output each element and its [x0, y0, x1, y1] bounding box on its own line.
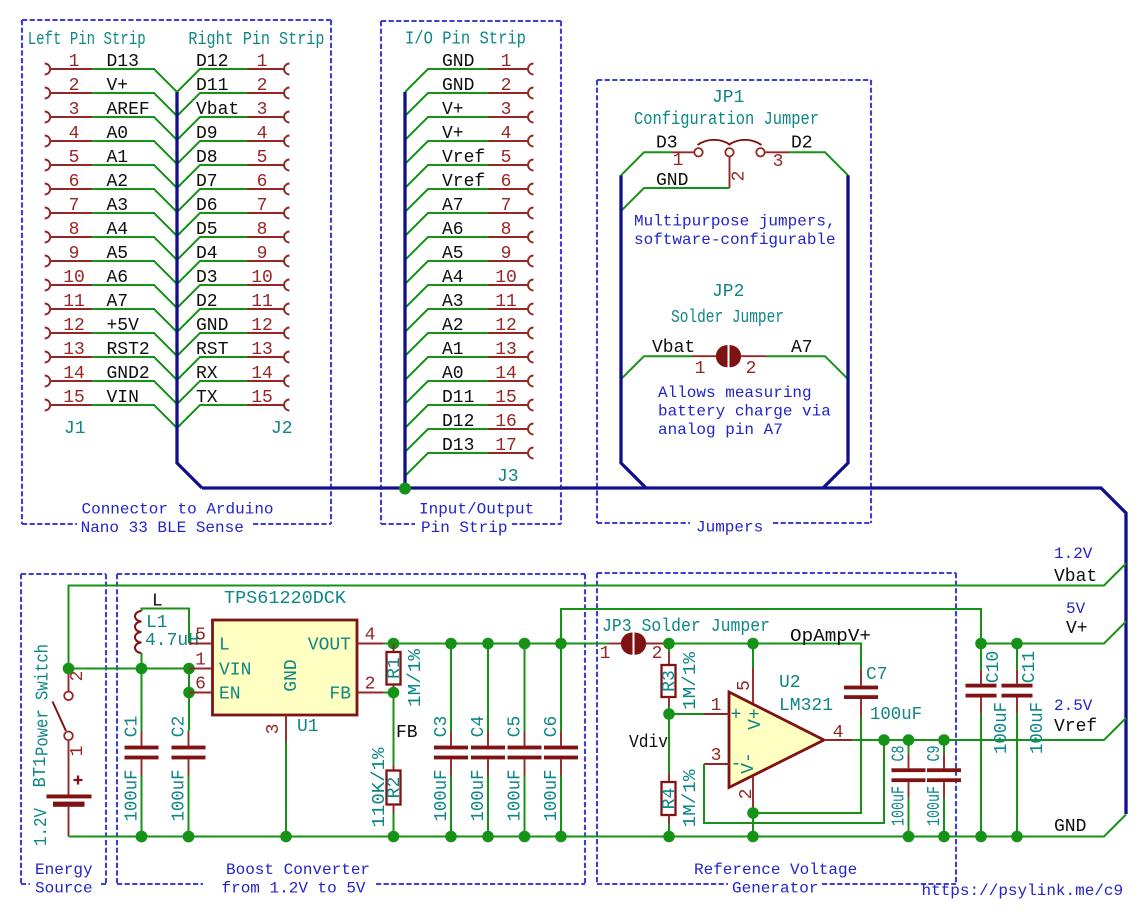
bus of J3 strip	[403, 92, 406, 488]
svg-text:15: 15	[251, 388, 273, 408]
J1 pin 10 (A6) socket hook	[45, 280, 51, 291]
svg-text:battery charge via: battery charge via	[658, 403, 831, 421]
wire L1 bottom to VIN row	[141, 653, 143, 669]
svg-text:1M/1%: 1M/1%	[406, 649, 426, 707]
J2 pin 13 line	[247, 356, 284, 358]
wire A4 to bus (J1 pin 8)	[92, 237, 177, 260]
svg-text:12: 12	[495, 316, 517, 336]
J2 pin 15 line	[247, 404, 284, 406]
J2 pin 9 line	[247, 260, 284, 262]
svg-text:1: 1	[673, 151, 684, 171]
svg-text:4: 4	[257, 124, 268, 144]
capacitor C1 top lead	[141, 730, 143, 732]
JP1 pin 2 line	[729, 157, 731, 188]
junction C6 top	[555, 638, 567, 650]
svg-text:Vbat: Vbat	[652, 338, 695, 358]
J3 pin 2 line	[488, 92, 528, 94]
wire Vbat rail (battery/switch top to right bus)	[69, 564, 1127, 669]
main horizontal bus	[202, 488, 1126, 814]
junction JP3/R3	[663, 638, 675, 650]
svg-text:V+: V+	[442, 124, 464, 144]
J2 pin 2 line	[247, 92, 284, 94]
svg-text:D13: D13	[442, 436, 474, 456]
resistor R1 pin bottom	[393, 685, 395, 693]
junction C11 top	[1011, 638, 1023, 650]
J3 pin 10 (A4) socket hook	[528, 280, 534, 291]
svg-text:FB: FB	[396, 723, 418, 743]
wire Vdiv to op-amp + input	[669, 713, 704, 715]
svg-text:10: 10	[251, 268, 273, 288]
J3 pin 11 (A3) socket hook	[528, 304, 534, 315]
junction C1 at GND rail	[136, 831, 148, 843]
svg-text:3: 3	[264, 724, 284, 735]
J2 pin 1 (D12) socket hook	[284, 64, 290, 75]
J3 pin 2 (GND) socket hook	[528, 88, 534, 99]
op-amp U2 triangle body	[729, 692, 824, 788]
wire U2 pin2/C7 bottom to GND rail	[752, 807, 754, 837]
svg-text:GND: GND	[442, 52, 474, 72]
svg-text:EN: EN	[219, 685, 241, 705]
svg-text:12: 12	[63, 316, 85, 336]
resistor R2 pin bottom	[393, 805, 395, 814]
J2 pin 1 line	[247, 68, 284, 70]
svg-text:C7: C7	[866, 665, 888, 685]
capacitor C1 plates	[125, 746, 159, 750]
J1 pin 10 line	[50, 284, 92, 286]
junction output/feedback	[878, 734, 890, 746]
svg-text:R1: R1	[385, 657, 405, 679]
U2 pin 2 line (V-)	[752, 777, 754, 807]
junction Vdiv node	[663, 708, 675, 720]
svg-text:8: 8	[501, 220, 512, 240]
svg-text:D6: D6	[196, 196, 218, 216]
svg-text:+: +	[731, 706, 742, 726]
JP1 pin 1 line	[672, 151, 694, 153]
wire C7 bottom to pin2 node	[753, 717, 861, 813]
svg-text:JP1: JP1	[712, 88, 744, 108]
J1 pin 8 line	[50, 236, 92, 238]
capacitor C9 top lead	[943, 740, 945, 754]
svg-text:JP2: JP2	[712, 282, 744, 302]
dashed box: Reference Voltage Generator	[597, 573, 956, 884]
svg-text:4.7uH: 4.7uH	[145, 631, 199, 651]
svg-text:C4: C4	[469, 716, 489, 738]
wire GND to left jumper bus	[621, 188, 730, 211]
J3 pin 6 line	[488, 188, 528, 190]
J2 pin 4 (D9) socket hook	[284, 136, 290, 147]
svg-text:A2: A2	[442, 316, 464, 336]
J1 pin 4 line	[50, 140, 92, 142]
svg-text:100uF: 100uF	[506, 770, 526, 822]
svg-text:GND: GND	[1054, 817, 1086, 837]
svg-text:5: 5	[69, 148, 80, 168]
svg-text:7: 7	[501, 196, 512, 216]
wire D7 to bus (J2 pin 6)	[177, 189, 247, 212]
wire D8 to bus (J2 pin 5)	[177, 165, 247, 188]
wire L node (L1 top to U1 pin 5)	[142, 609, 190, 644]
U1 pin 4 line (VOUT)	[357, 643, 383, 645]
junction C4 at GND rail	[482, 831, 494, 843]
resistor R2 pin top	[393, 765, 395, 771]
J1 pin 5 (A1) socket hook	[45, 160, 51, 171]
wire JP3 to op-amp V+ node	[669, 643, 753, 645]
svg-text:Pin Strip: Pin Strip	[421, 519, 507, 537]
junction C3 at GND rail	[445, 831, 457, 843]
J1 pin 12 line	[50, 332, 92, 334]
wire D13 to bus (J3 pin 17)	[405, 453, 488, 476]
svg-text:RX: RX	[196, 364, 218, 384]
wire +5V to bus (J1 pin 12)	[92, 333, 177, 356]
svg-text:100uF: 100uF	[1028, 702, 1048, 754]
svg-text:Vref: Vref	[442, 172, 485, 192]
J1 pin 4 (A0) socket hook	[45, 136, 51, 147]
J3 pin 7 (A7) socket hook	[528, 208, 534, 219]
svg-text:A4: A4	[442, 268, 464, 288]
wire A3 to bus (J1 pin 7)	[92, 213, 177, 236]
svg-text:D5: D5	[196, 220, 218, 240]
J2 pin 14 (RX) socket hook	[284, 376, 290, 387]
svg-text:VIN: VIN	[219, 661, 251, 681]
junction FB node	[388, 687, 400, 699]
capacitor C6 plates	[544, 746, 578, 750]
svg-text:3: 3	[711, 746, 722, 766]
capacitor C6 bottom lead	[560, 759, 562, 775]
svg-text:RST: RST	[196, 340, 229, 360]
svg-text:Source: Source	[35, 879, 93, 897]
svg-text:100uF: 100uF	[992, 702, 1012, 754]
svg-text:Input/Output: Input/Output	[419, 501, 534, 519]
capacitor C2 top lead	[188, 730, 190, 732]
svg-text:1: 1	[195, 651, 206, 671]
svg-text:D12: D12	[196, 52, 228, 72]
J3 pin 13 (A1) socket hook	[528, 352, 534, 363]
JP3 pin 1 line	[609, 643, 622, 645]
J3 pin 12 (A2) socket hook	[528, 328, 534, 339]
wire A1 to bus (J3 pin 13)	[405, 357, 488, 380]
J3 pin 15 (D11) socket hook	[528, 400, 534, 411]
J1 pin 3 line	[50, 116, 92, 118]
junction L1/C1/VIN	[136, 663, 148, 675]
wire V+ row right rail	[981, 622, 1126, 644]
J2 pin 11 (D2) socket hook	[284, 304, 290, 315]
svg-text:V+: V+	[1066, 619, 1088, 639]
junction R1 top	[388, 638, 400, 650]
capacitor C4 bottom lead	[487, 759, 489, 775]
J3 pin 10 line	[488, 284, 528, 286]
junction R4 at rail	[663, 831, 675, 843]
J2 pin 6 line	[247, 188, 284, 190]
wire V+ to bus (J3 pin 3)	[405, 117, 488, 140]
J1 pin 2 line	[50, 92, 92, 94]
J1 pin 5 line	[50, 164, 92, 166]
svg-text:+5V: +5V	[107, 316, 140, 336]
junction C1 at rail	[136, 831, 148, 843]
svg-text:4: 4	[501, 124, 512, 144]
bus junction at J3 bus / main bus	[399, 483, 411, 495]
junction C8 at GND rail	[903, 831, 915, 843]
svg-text:VOUT: VOUT	[308, 636, 351, 656]
svg-text:TX: TX	[196, 388, 218, 408]
JP1 pin 3 line	[765, 151, 789, 153]
svg-text:A1: A1	[107, 148, 129, 168]
svg-text:3: 3	[69, 100, 80, 120]
wire A0 to bus (J3 pin 14)	[405, 381, 488, 404]
wire D13 to bus (J1 pin 1)	[92, 69, 177, 92]
svg-text:8: 8	[69, 220, 80, 240]
U2 pin 4 line (output)	[824, 739, 852, 741]
resistor R3 body	[662, 665, 676, 697]
svg-text:analog pin A7: analog pin A7	[658, 421, 783, 439]
J1 pin 3 (AREF) socket hook	[45, 112, 51, 123]
svg-text:D12: D12	[442, 412, 474, 432]
svg-text:Solder Jumper: Solder Jumper	[671, 308, 784, 328]
wire GND to bus (J3 pin 2)	[405, 93, 488, 116]
svg-text:Vdiv: Vdiv	[629, 733, 668, 753]
capacitor C2 bottom lead	[188, 759, 190, 775]
svg-text:Reference Voltage: Reference Voltage	[694, 861, 857, 879]
J1 pin 12 (+5V) socket hook	[45, 328, 51, 339]
capacitor C2 plates	[172, 746, 206, 750]
junction C10 top	[975, 638, 987, 650]
junction C2 at GND rail	[183, 831, 195, 843]
svg-text:VIN: VIN	[107, 388, 139, 408]
jumper JP1 arc 1-2	[698, 140, 731, 145]
J3 pin 5 line	[488, 164, 528, 166]
J3 pin 1 (GND) socket hook	[528, 64, 534, 75]
capacitor C4 plates	[471, 746, 505, 750]
J2 pin 4 line	[247, 140, 284, 142]
wire A4 to bus (J3 pin 10)	[405, 285, 488, 308]
svg-text:GND2: GND2	[107, 364, 150, 384]
U2 pin 5 line (V+)	[752, 668, 754, 703]
svg-text:A7: A7	[791, 338, 813, 358]
J3 pin 7 line	[488, 212, 528, 214]
wire Vbat to left jumper bus	[621, 356, 692, 379]
svg-text:6: 6	[69, 172, 80, 192]
svg-text:U1: U1	[297, 717, 319, 737]
U1 pin 1 line (VIN)	[189, 668, 213, 670]
svg-text:1: 1	[711, 696, 722, 716]
svg-text:C3: C3	[432, 716, 452, 738]
svg-text:1.2V: 1.2V	[32, 808, 52, 846]
resistor R3 pin bottom	[668, 697, 670, 706]
svg-text:3: 3	[257, 100, 268, 120]
svg-text:D11: D11	[196, 76, 228, 96]
svg-text:2: 2	[730, 171, 750, 182]
J3 pin 12 line	[488, 332, 528, 334]
J1 pin 15 (VIN) socket hook	[45, 400, 51, 411]
dashed box: Input/Output Pin Strip (J3)	[381, 21, 561, 524]
J3 pin 14 line	[488, 380, 528, 382]
left jumper bus	[621, 175, 646, 488]
IC U1 body	[213, 620, 358, 715]
J3 pin 15 line	[488, 404, 528, 406]
wire A2 to bus (J1 pin 6)	[92, 189, 177, 212]
capacitor C4 top lead	[487, 644, 489, 732]
U1 pin 5 line (L)	[189, 643, 213, 645]
svg-text:FB: FB	[329, 685, 351, 705]
svg-text:D8: D8	[196, 148, 218, 168]
capacitor C10 bottom lead	[980, 698, 982, 714]
J2 pin 11 line	[247, 308, 284, 310]
svg-text:2: 2	[652, 644, 663, 664]
J2 pin 14 line	[247, 380, 284, 382]
svg-text:2: 2	[365, 675, 376, 695]
junction VIN pin	[183, 663, 195, 675]
svg-text:3: 3	[773, 152, 784, 172]
svg-text:13: 13	[495, 340, 517, 360]
svg-text:1M/1%: 1M/1%	[681, 769, 701, 827]
J1 pin 1 (D13) socket hook	[45, 64, 51, 75]
wire R4 to GND rail	[668, 824, 670, 837]
J1 pin 15 line	[50, 404, 92, 406]
svg-text:14: 14	[63, 364, 85, 384]
svg-text:Energy: Energy	[35, 861, 93, 879]
svg-text:A1: A1	[442, 340, 464, 360]
U2 pin 1 line (+ input)	[704, 713, 729, 715]
svg-text:11: 11	[495, 292, 517, 312]
J1 pin 13 (RST2) socket hook	[45, 352, 51, 363]
junction op-amp V+ branch	[747, 638, 759, 650]
wire VIN row	[69, 668, 190, 670]
svg-text:Boost Converter: Boost Converter	[226, 861, 370, 879]
U1 pin 6 line (EN)	[189, 692, 213, 694]
svg-text:C9: C9	[925, 746, 945, 762]
J1 pin 7 (A3) socket hook	[45, 208, 51, 219]
capacitor C11 top lead	[1016, 644, 1018, 670]
bus of J1/J2 strips	[177, 92, 202, 488]
JP2 pin 2 line	[741, 355, 766, 357]
capacitor C7 plates	[844, 686, 878, 690]
battery BT1 positive plate	[47, 795, 92, 799]
J3 pin 16 (D12) socket hook	[528, 424, 534, 435]
svg-text:100uF: 100uF	[123, 770, 143, 822]
svg-text:I/O Pin Strip: I/O Pin Strip	[405, 30, 526, 50]
svg-text:A3: A3	[107, 196, 129, 216]
wire A7 to right jumper bus	[766, 356, 848, 379]
svg-text:A0: A0	[107, 124, 129, 144]
battery BT1 plus marker	[74, 776, 83, 785]
wire C1 vertical	[141, 669, 143, 731]
junction C11 at GND rail	[1011, 831, 1023, 843]
junction C6 at GND rail	[555, 831, 567, 843]
svg-text:LM321: LM321	[779, 696, 833, 716]
wire D2 to bus (J2 pin 11)	[177, 309, 247, 332]
svg-text:Vref: Vref	[442, 148, 485, 168]
capacitor C3 plates	[434, 746, 468, 750]
svg-text:100uF: 100uF	[890, 786, 910, 826]
svg-text:A2: A2	[107, 172, 129, 192]
dashed box: Boost Converter	[117, 574, 585, 884]
svg-text:1: 1	[68, 746, 88, 757]
svg-text:4: 4	[69, 124, 80, 144]
svg-text:A3: A3	[442, 292, 464, 312]
svg-text:100uF: 100uF	[432, 770, 452, 822]
svg-text:11: 11	[251, 292, 273, 312]
svg-text:1: 1	[695, 359, 706, 379]
capacitor C1 bottom lead	[141, 759, 143, 775]
svg-text:Jumpers: Jumpers	[696, 519, 763, 537]
J2 pin 3 (Vbat) socket hook	[284, 112, 290, 123]
wire D11 to bus (J3 pin 15)	[405, 405, 488, 428]
svg-text:C5: C5	[506, 716, 526, 738]
svg-text:D3: D3	[196, 268, 218, 288]
svg-text:9: 9	[501, 244, 512, 264]
svg-text:https://psylink.me/c9: https://psylink.me/c9	[922, 882, 1124, 900]
svg-text:AREF: AREF	[107, 100, 150, 120]
junction U1 GND at rail	[280, 831, 292, 843]
svg-text:15: 15	[63, 388, 85, 408]
battery BT1 negative pin to GND rail	[68, 807, 70, 837]
svg-text:BT1: BT1	[31, 757, 51, 788]
wire RX to bus (J2 pin 14)	[177, 381, 247, 404]
wire A6 to bus (J1 pin 10)	[92, 285, 177, 308]
wire VOUT row (U1 pin4 to JP3)	[383, 643, 609, 645]
J2 pin 9 (D4) socket hook	[284, 256, 290, 267]
svg-text:1: 1	[501, 52, 512, 72]
svg-text:Right Pin Strip: Right Pin Strip	[188, 30, 324, 50]
svg-text:GND: GND	[282, 659, 302, 691]
J3 pin 3 (V+) socket hook	[528, 112, 534, 123]
svg-text:L: L	[219, 636, 230, 656]
J3 pin 1 line	[488, 68, 528, 70]
junction C3 top	[445, 638, 457, 650]
svg-text:TPS61220DCK: TPS61220DCK	[224, 589, 346, 609]
svg-text:Vbat: Vbat	[1054, 567, 1097, 587]
J2 pin 12 (GND) socket hook	[284, 328, 290, 339]
svg-text:100uF: 100uF	[925, 786, 945, 826]
J1 pin 1 line	[50, 68, 92, 70]
svg-text:13: 13	[251, 340, 273, 360]
J3 pin 9 (A5) socket hook	[528, 256, 534, 267]
svg-text:13: 13	[63, 340, 85, 360]
svg-text:J1: J1	[64, 419, 86, 439]
junction C9 at GND rail	[938, 831, 950, 843]
svg-text:Vbat: Vbat	[196, 100, 239, 120]
svg-text:5: 5	[257, 148, 268, 168]
svg-text:10: 10	[63, 268, 85, 288]
dashed box: Connector to Arduino Nano 33 BLE Sense (J1/J2)	[22, 20, 331, 524]
J3 pin 6 (Vref) socket hook	[528, 184, 534, 195]
wire Vref output row	[852, 718, 1126, 740]
resistor R4 pin top	[668, 773, 670, 782]
J2 pin 5 line	[247, 164, 284, 166]
J2 pin 2 (D11) socket hook	[284, 88, 290, 99]
svg-text:6: 6	[257, 172, 268, 192]
switch SW1 pin 2 line	[68, 669, 70, 692]
J3 pin 9 line	[488, 260, 528, 262]
capacitor C10 plates	[966, 684, 997, 688]
resistor R4 body	[662, 782, 676, 815]
J1 pin 14 line	[50, 380, 92, 382]
capacitor C3 bottom lead	[450, 759, 452, 775]
wire Vref to bus (J3 pin 6)	[405, 189, 488, 212]
capacitor C3 top lead	[450, 644, 452, 732]
J2 pin 10 line	[247, 284, 284, 286]
junction U2 pin 2 at rail	[747, 831, 759, 843]
resistor R1 pin top	[393, 644, 395, 653]
wire D6 to bus (J2 pin 7)	[177, 213, 247, 236]
svg-text:J2: J2	[271, 419, 293, 439]
svg-text:2.5V: 2.5V	[1054, 697, 1093, 715]
capacitor C8 bottom lead	[908, 782, 910, 798]
switch SW1 lever	[53, 702, 67, 732]
wire A5 to bus (J1 pin 9)	[92, 261, 177, 284]
capacitor C11 bottom lead	[1016, 698, 1018, 714]
wire GND rail	[69, 815, 1127, 837]
J1 pin 9 (A5) socket hook	[45, 256, 51, 267]
svg-text:1M/1%: 1M/1%	[681, 652, 701, 710]
